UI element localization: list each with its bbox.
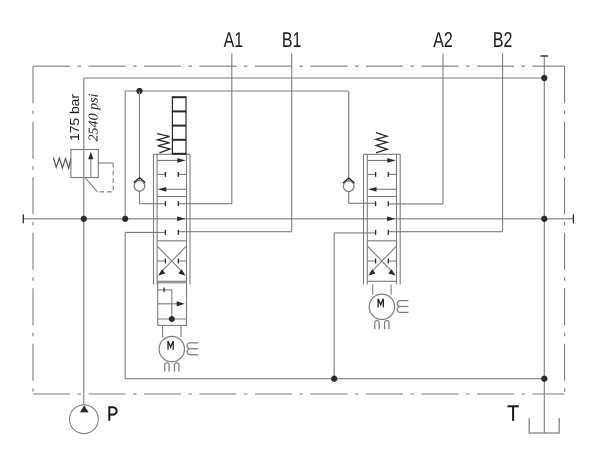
svg-text:2540 psi: 2540 psi (86, 93, 101, 141)
svg-text:B2: B2 (493, 28, 513, 52)
svg-text:A2: A2 (433, 28, 453, 52)
svg-text:175 bar: 175 bar (67, 93, 82, 141)
svg-text:A1: A1 (224, 28, 244, 52)
svg-text:B1: B1 (282, 28, 302, 52)
